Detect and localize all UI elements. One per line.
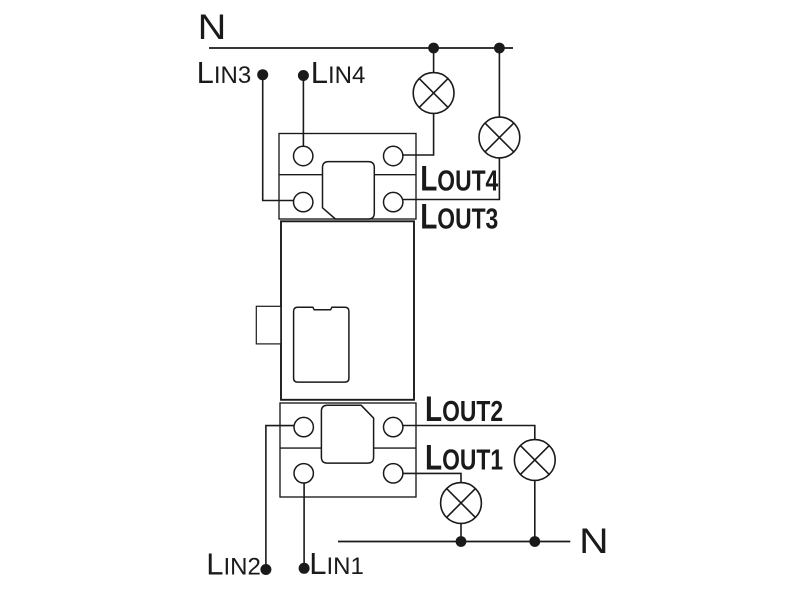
node LIN2 terminal dot <box>260 564 271 575</box>
bottom block divider left <box>280 447 321 449</box>
wire N bottom bus <box>338 541 570 543</box>
lamp E1 <box>441 483 482 524</box>
DIN rail clip tab <box>256 306 281 344</box>
lamp E2 <box>514 440 555 481</box>
top block divider right <box>375 174 416 176</box>
wire LIN1 to module <box>303 483 305 564</box>
wire LOUT1 to lamp E1 <box>403 473 461 482</box>
lamp E4 <box>413 73 454 114</box>
node LIN4 terminal dot <box>298 70 309 81</box>
lamp E3 <box>479 117 520 158</box>
node LIN1 terminal dot <box>299 563 310 574</box>
module body <box>281 221 414 399</box>
wire lamp E4 to LOUT4 <box>403 113 434 155</box>
wire N top bus <box>209 47 513 49</box>
node junction J2 on N top bus <box>494 43 505 54</box>
terminal LOUT2 (bottom block top-right) <box>384 417 403 436</box>
bottom block center clamp <box>321 405 373 463</box>
wire LIN2 to module <box>266 426 294 565</box>
terminal LIN1 (bottom block bottom-left) <box>294 464 313 483</box>
module top terminal block <box>279 134 416 220</box>
bottom block divider right <box>374 447 416 449</box>
terminal LOUT1 (bottom block bottom-right) <box>384 464 403 483</box>
node junction J3 on N bottom bus <box>456 536 467 547</box>
svg-text:N: N <box>579 521 608 561</box>
top block center clamp <box>323 162 375 219</box>
terminal LIN2 (bottom block top-left) <box>294 417 313 436</box>
wire LOUT2 to lamp E2 <box>403 426 535 440</box>
node LIN3 terminal dot <box>257 69 268 80</box>
svg-text:N: N <box>198 7 227 47</box>
node junction J1 on N top bus <box>428 43 439 54</box>
terminal LIN4 (top block top-left) <box>294 146 313 165</box>
wire lamp E2 to N bus <box>534 480 536 541</box>
module bottom terminal block <box>280 403 416 497</box>
module button <box>294 307 349 382</box>
wire lamp E3 to LOUT3 <box>403 158 500 200</box>
wire N bus to lamp E4 <box>433 48 435 73</box>
terminal LOUT4 (top block top-right) <box>384 146 403 165</box>
wire LIN4 to module <box>302 80 304 147</box>
wire N bus to lamp E3 <box>498 48 500 117</box>
wire lamp E1 to N bus <box>460 523 462 541</box>
node junction J4 on N bottom bus <box>529 536 540 547</box>
terminal LIN3 (top block bottom-left) <box>294 192 313 211</box>
top block divider left <box>279 174 323 176</box>
terminal LOUT3 (top block bottom-right) <box>384 192 403 211</box>
wire LIN3 to module <box>263 79 294 201</box>
